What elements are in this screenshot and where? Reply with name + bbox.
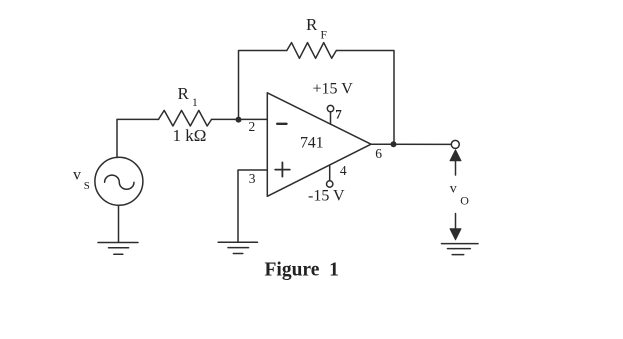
op-amp plus sign (non-inverting input) bbox=[275, 162, 290, 176]
svg-text:1 kΩ: 1 kΩ bbox=[173, 126, 207, 145]
svg-text:R: R bbox=[306, 15, 318, 34]
resistor RF bbox=[287, 43, 337, 59]
output label vO bbox=[450, 181, 470, 207]
pin 7 stub bbox=[330, 112, 332, 124]
svg-text:S: S bbox=[84, 180, 90, 192]
ground (below vO) bbox=[442, 244, 479, 255]
pin 4 stub bbox=[329, 165, 331, 181]
resistor R1 bbox=[159, 110, 212, 126]
vO down arrow bbox=[450, 214, 461, 240]
wire R1 to op-amp inverting input (pin 2) bbox=[212, 118, 268, 120]
supply label +15 V bbox=[313, 81, 354, 98]
svg-text:1: 1 bbox=[192, 97, 198, 109]
source label vS bbox=[73, 167, 90, 193]
svg-text:3: 3 bbox=[249, 171, 256, 186]
wire node A up to RF bbox=[239, 51, 287, 120]
label 741 bbox=[300, 135, 324, 152]
supply label -15 V bbox=[308, 187, 345, 204]
pin 4 terminal circle (-15 V supply) bbox=[327, 181, 333, 187]
svg-text:R: R bbox=[178, 84, 190, 103]
svg-text:6: 6 bbox=[375, 146, 382, 161]
node A (summing junction dot) bbox=[236, 117, 242, 123]
svg-text:Figure 1: Figure 1 bbox=[265, 259, 339, 280]
wire pin 6 output bbox=[371, 143, 451, 145]
svg-text:v: v bbox=[73, 167, 81, 184]
value label 1 kOhm bbox=[173, 126, 207, 145]
op-amp U1 (741 triangle) bbox=[267, 93, 371, 197]
svg-text:2: 2 bbox=[249, 119, 256, 134]
svg-text:-15 V: -15 V bbox=[308, 187, 345, 204]
svg-text:F: F bbox=[321, 30, 327, 42]
ground (below pin 3) bbox=[218, 242, 257, 253]
wire pin 3 to ground bbox=[238, 170, 267, 242]
pin number 4 bbox=[340, 163, 347, 178]
svg-text:v: v bbox=[450, 181, 457, 196]
wire source-bottom to ground bbox=[118, 205, 120, 242]
vO up arrow bbox=[450, 150, 461, 175]
wire RF to output node bbox=[336, 51, 394, 145]
caption Figure 1 bbox=[265, 259, 339, 280]
svg-text:4: 4 bbox=[340, 163, 347, 178]
pin number 6 bbox=[375, 146, 382, 161]
op-amp minus sign (inverting input) bbox=[277, 123, 286, 125]
svg-text:741: 741 bbox=[300, 135, 324, 152]
svg-text:7: 7 bbox=[335, 106, 342, 121]
ground (below source VS) bbox=[98, 243, 138, 255]
node B (output junction dot) bbox=[391, 141, 397, 147]
svg-text:+15 V: +15 V bbox=[313, 81, 354, 98]
pin number 7 bbox=[335, 106, 342, 121]
svg-text:O: O bbox=[460, 194, 469, 208]
label R (of RF) bbox=[306, 15, 327, 41]
source VS (sine circle) bbox=[95, 157, 143, 205]
pin number 2 bbox=[249, 119, 256, 134]
pin number 3 bbox=[249, 171, 256, 186]
output terminal circle bbox=[451, 140, 459, 148]
wire source-top to R1 bbox=[117, 119, 159, 157]
pin 7 terminal circle (+15 V supply) bbox=[327, 105, 333, 111]
label R (of R1) bbox=[178, 84, 199, 109]
